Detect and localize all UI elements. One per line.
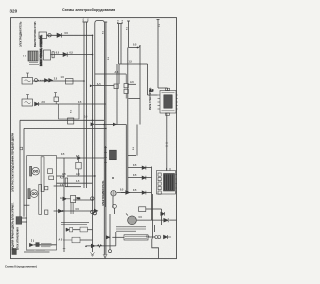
svg-text:Схемы электрооборудования: Схемы электрооборудования (62, 8, 115, 12)
svg-text:БЛОК УПРАВЛЕНИЯ: БЛОК УПРАВЛЕНИЯ (16, 227, 19, 250)
svg-text:А.5: А.5 (60, 177, 64, 180)
svg-text:РЕЛЕ СТЕКЛОПОД.: РЕЛЕ СТЕКЛОПОД. (149, 87, 152, 110)
svg-text:ЭЛЕКТРОДВИГАТЕЛЬ: ЭЛЕКТРОДВИГАТЕЛЬ (20, 21, 23, 47)
svg-text:А.5: А.5 (76, 173, 80, 176)
svg-text:Схема 8 (продолжение): Схема 8 (продолжение) (5, 265, 37, 269)
svg-text:ЭЛЕКТРОСТЕКЛОПОДЪЕМНИК ПЕРЕДНЕ: ЭЛЕКТРОСТЕКЛОПОДЪЕМНИК ПЕРЕДНЕЙ ДВЕРИ (12, 133, 15, 192)
svg-text:А.5: А.5 (115, 71, 119, 74)
svg-text:А.5: А.5 (97, 83, 101, 86)
svg-text:А.5: А.5 (62, 173, 66, 176)
svg-text:А.5: А.5 (60, 197, 64, 200)
svg-text:ЗАДНЯЯ ПРАВАЯ ДВЕРЬ БЛОК УПРАВ: ЗАДНЯЯ ПРАВАЯ ДВЕРЬ БЛОК УПРАВЛ. (12, 202, 15, 250)
svg-text:А.5: А.5 (130, 81, 134, 84)
svg-text:ВЕНТИЛЯТОРА ОТОП.: ВЕНТИЛЯТОРА ОТОП. (34, 21, 37, 47)
svg-text:ЭЛЕКТРОДВИГАТЕЛЬ: ЭЛЕКТРОДВИГАТЕЛЬ (102, 180, 105, 206)
svg-text:БЛОК УПРАВЛ. СТЕКЛОП.: БЛОК УПРАВЛ. СТЕКЛОП. (40, 35, 43, 66)
svg-text:А 5: А 5 (59, 238, 63, 241)
svg-text:320: 320 (10, 9, 18, 14)
